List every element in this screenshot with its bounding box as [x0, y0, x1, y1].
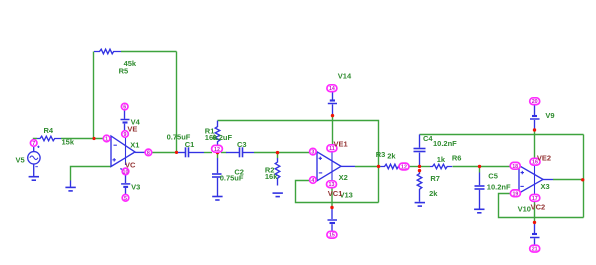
svg-text:4: 4 [311, 178, 314, 184]
resistor R3 [381, 164, 401, 169]
wire V5 stub to R4 [34, 139, 38, 141]
svg-text:10.2nF: 10.2nF [433, 139, 457, 148]
pin bubble V5 node 7 [30, 140, 37, 147]
op-amp X2 [317, 152, 355, 181]
ground below C2 [212, 197, 222, 201]
junction dot R7 pin [418, 169, 421, 172]
junction dot V10 lead [533, 221, 536, 224]
battery V9 [530, 105, 540, 131]
wire C1 to node 2 [204, 152, 212, 154]
junction dot X1 output / feedback-right [175, 151, 178, 154]
pin bubble X3 VE2 node 16 [530, 158, 540, 165]
svg-text:V10: V10 [518, 204, 531, 213]
svg-text:VE1: VE1 [334, 140, 348, 149]
svg-text:12: 12 [401, 165, 407, 171]
svg-text:X2: X2 [339, 173, 348, 182]
pin bubble V10 bottom node 21 [530, 245, 540, 252]
svg-text:15k: 15k [62, 138, 75, 147]
junction dot X2 output / rail [377, 165, 380, 168]
svg-text:17: 17 [532, 196, 538, 202]
resistor R5 [94, 49, 121, 54]
junction dot X3 output / rail [581, 178, 584, 181]
svg-text:10: 10 [123, 169, 129, 175]
wire C4 output rail top [420, 134, 584, 136]
pin bubble X3 noninverting input node 18 [510, 162, 520, 169]
pin bubble V14 top node 14 [327, 85, 337, 92]
pin bubble X2 noninverting input node 3 [310, 148, 317, 155]
svg-text:VC2: VC2 [531, 202, 546, 211]
pin bubble X1 output node 8 [145, 149, 152, 156]
pin bubble R3 right node 12 [399, 163, 409, 170]
pin bubble X2 VE1 node 11 [327, 145, 337, 152]
junction dot node 2 [216, 151, 219, 154]
svg-text:C3: C3 [237, 140, 247, 149]
resistor R7 vertical [417, 171, 422, 202]
svg-text:C4: C4 [423, 134, 433, 143]
battery V3 [121, 175, 130, 195]
junction dot V14 lead [331, 114, 334, 117]
LABELS maroon [125, 125, 551, 212]
svg-text:V3: V3 [131, 183, 140, 192]
svg-text:0.75uF: 0.75uF [220, 174, 244, 183]
svg-text:5: 5 [124, 196, 127, 202]
svg-text:R6: R6 [452, 154, 462, 163]
svg-text:14: 14 [329, 86, 335, 92]
svg-text:R5: R5 [119, 67, 129, 76]
wire node to C2 [217, 153, 219, 159]
svg-text:15: 15 [329, 233, 335, 239]
capacitor C4 [414, 135, 426, 167]
ground below C5 [474, 209, 484, 213]
wire X1 output to C1 [152, 152, 178, 154]
capacitor C5 [475, 173, 485, 209]
junction dot V13 lead [330, 206, 333, 209]
pin bubble X3 VC2 node 17 [530, 195, 540, 202]
svg-text:C5: C5 [488, 171, 498, 180]
svg-text:X1: X1 [130, 140, 139, 149]
wire X1 feedback top [121, 51, 177, 53]
ground below X1 noninverting input [65, 181, 75, 191]
svg-text:VE2: VE2 [537, 154, 551, 163]
wire C3 to X2 noninverting input [254, 152, 310, 154]
svg-text:7: 7 [32, 141, 35, 147]
svg-text:9: 9 [124, 132, 127, 138]
svg-text:R7: R7 [430, 174, 440, 183]
pin bubble X1 VC node 10 [122, 168, 129, 175]
svg-text:0.2uF: 0.2uF [213, 133, 233, 142]
svg-text:13: 13 [329, 182, 335, 188]
LABELS green [16, 59, 555, 213]
svg-text:X3: X3 [541, 182, 550, 191]
wire node to C3 [221, 152, 227, 154]
pin bubble X3 inverting input node 19 [510, 190, 520, 197]
pin bubble V9 top node 20 [530, 98, 540, 105]
battery V10 [530, 223, 540, 246]
junction dot C5 / main wire [478, 165, 481, 168]
svg-text:V14: V14 [338, 72, 352, 81]
pin bubble V4 top node 6 [121, 103, 128, 110]
ground below R2 [273, 193, 283, 197]
resistor R6 [430, 164, 452, 169]
svg-text:16k: 16k [265, 172, 278, 181]
wire junction to R6 [420, 166, 431, 168]
wire X1 feedback right vertical [176, 52, 178, 153]
ground below R7 [415, 203, 425, 207]
resistor R4 [37, 136, 61, 141]
svg-text:VC1: VC1 [328, 189, 343, 198]
resistor R2 vertical [275, 158, 280, 186]
pin bubble X2 VC1 node 13 [327, 181, 337, 188]
wire R4 to X1 inverting input [61, 138, 103, 140]
svg-text:8: 8 [147, 150, 150, 156]
svg-text:18: 18 [512, 164, 518, 170]
wire VC1 pin to V13 [331, 188, 333, 208]
wire C5 junction to X3 noninverting input [480, 166, 512, 168]
junction dot feedback-left / X1 input [92, 137, 95, 140]
wire right vertical rail [583, 135, 585, 218]
svg-text:VE: VE [127, 125, 137, 134]
wire R2 junction stub [277, 153, 279, 159]
svg-text:VC: VC [125, 161, 136, 170]
junction dot C4 / main wire [418, 165, 421, 168]
PIN BUBBLES [30, 85, 540, 252]
svg-text:V9: V9 [545, 111, 554, 120]
svg-text:10.2nF: 10.2nF [487, 183, 511, 192]
svg-text:20: 20 [532, 99, 538, 105]
capacitor C2 [212, 158, 222, 196]
svg-text:6: 6 [123, 105, 126, 111]
wire V9 to VE2 pin [534, 130, 536, 158]
svg-text:19: 19 [512, 191, 518, 197]
pin bubble V13 bottom node 15 [327, 231, 337, 238]
battery V14 [328, 91, 337, 115]
ground below V5 [29, 177, 39, 181]
pin bubble V3 bottom node 5 [122, 195, 129, 202]
svg-text:21: 21 [532, 247, 538, 253]
wire X1 feedback left vertical [93, 52, 95, 139]
battery V4 [121, 110, 130, 130]
op-amp X3 [519, 165, 553, 194]
wire ground to X1 noninverting input [71, 167, 111, 181]
pin bubble X1 VE node 9 [122, 131, 129, 138]
battery V13 [328, 208, 338, 232]
voltage source V5 [28, 146, 40, 176]
svg-text:V5: V5 [16, 156, 25, 165]
wire C5 junction stub down [479, 167, 481, 173]
capacitor C3 [226, 147, 254, 157]
pin marker dot X1 VC [120, 168, 121, 169]
resistor R1 vertical [215, 121, 220, 146]
svg-text:2k: 2k [429, 189, 438, 198]
wire R1 feedback rail to X2 output junction [218, 121, 379, 203]
svg-text:2k: 2k [387, 151, 396, 160]
svg-text:R3: R3 [376, 150, 386, 159]
capacitor C1 [178, 147, 205, 157]
junction dot V9 lead [533, 128, 536, 131]
svg-text:R4: R4 [44, 126, 54, 135]
svg-text:1k: 1k [437, 155, 446, 164]
wire X2 inverting input feedback [296, 181, 379, 203]
svg-text:12: 12 [214, 147, 220, 153]
junction dot R2 [276, 151, 279, 154]
svg-text:C1: C1 [185, 140, 195, 149]
wire VC2 pin to V10 [534, 201, 536, 222]
op-amp X1 [111, 136, 145, 167]
pin bubble X2 inverting input node 4 [310, 177, 317, 184]
wire X3 bottom feedback rail [499, 194, 584, 218]
wire X3 output to rail [553, 179, 584, 181]
wire R3 bubble to junction [408, 166, 420, 168]
svg-text:3: 3 [311, 150, 314, 156]
pin bubble X1 inverting input node 1 [103, 135, 110, 142]
pin bubble node 2 junction [212, 145, 223, 152]
wire V14 to VE1 pin [332, 116, 334, 146]
wire X2 output to R3 [355, 166, 381, 168]
svg-text:1: 1 [105, 137, 108, 143]
wire R6 to C5 junction [453, 166, 480, 168]
